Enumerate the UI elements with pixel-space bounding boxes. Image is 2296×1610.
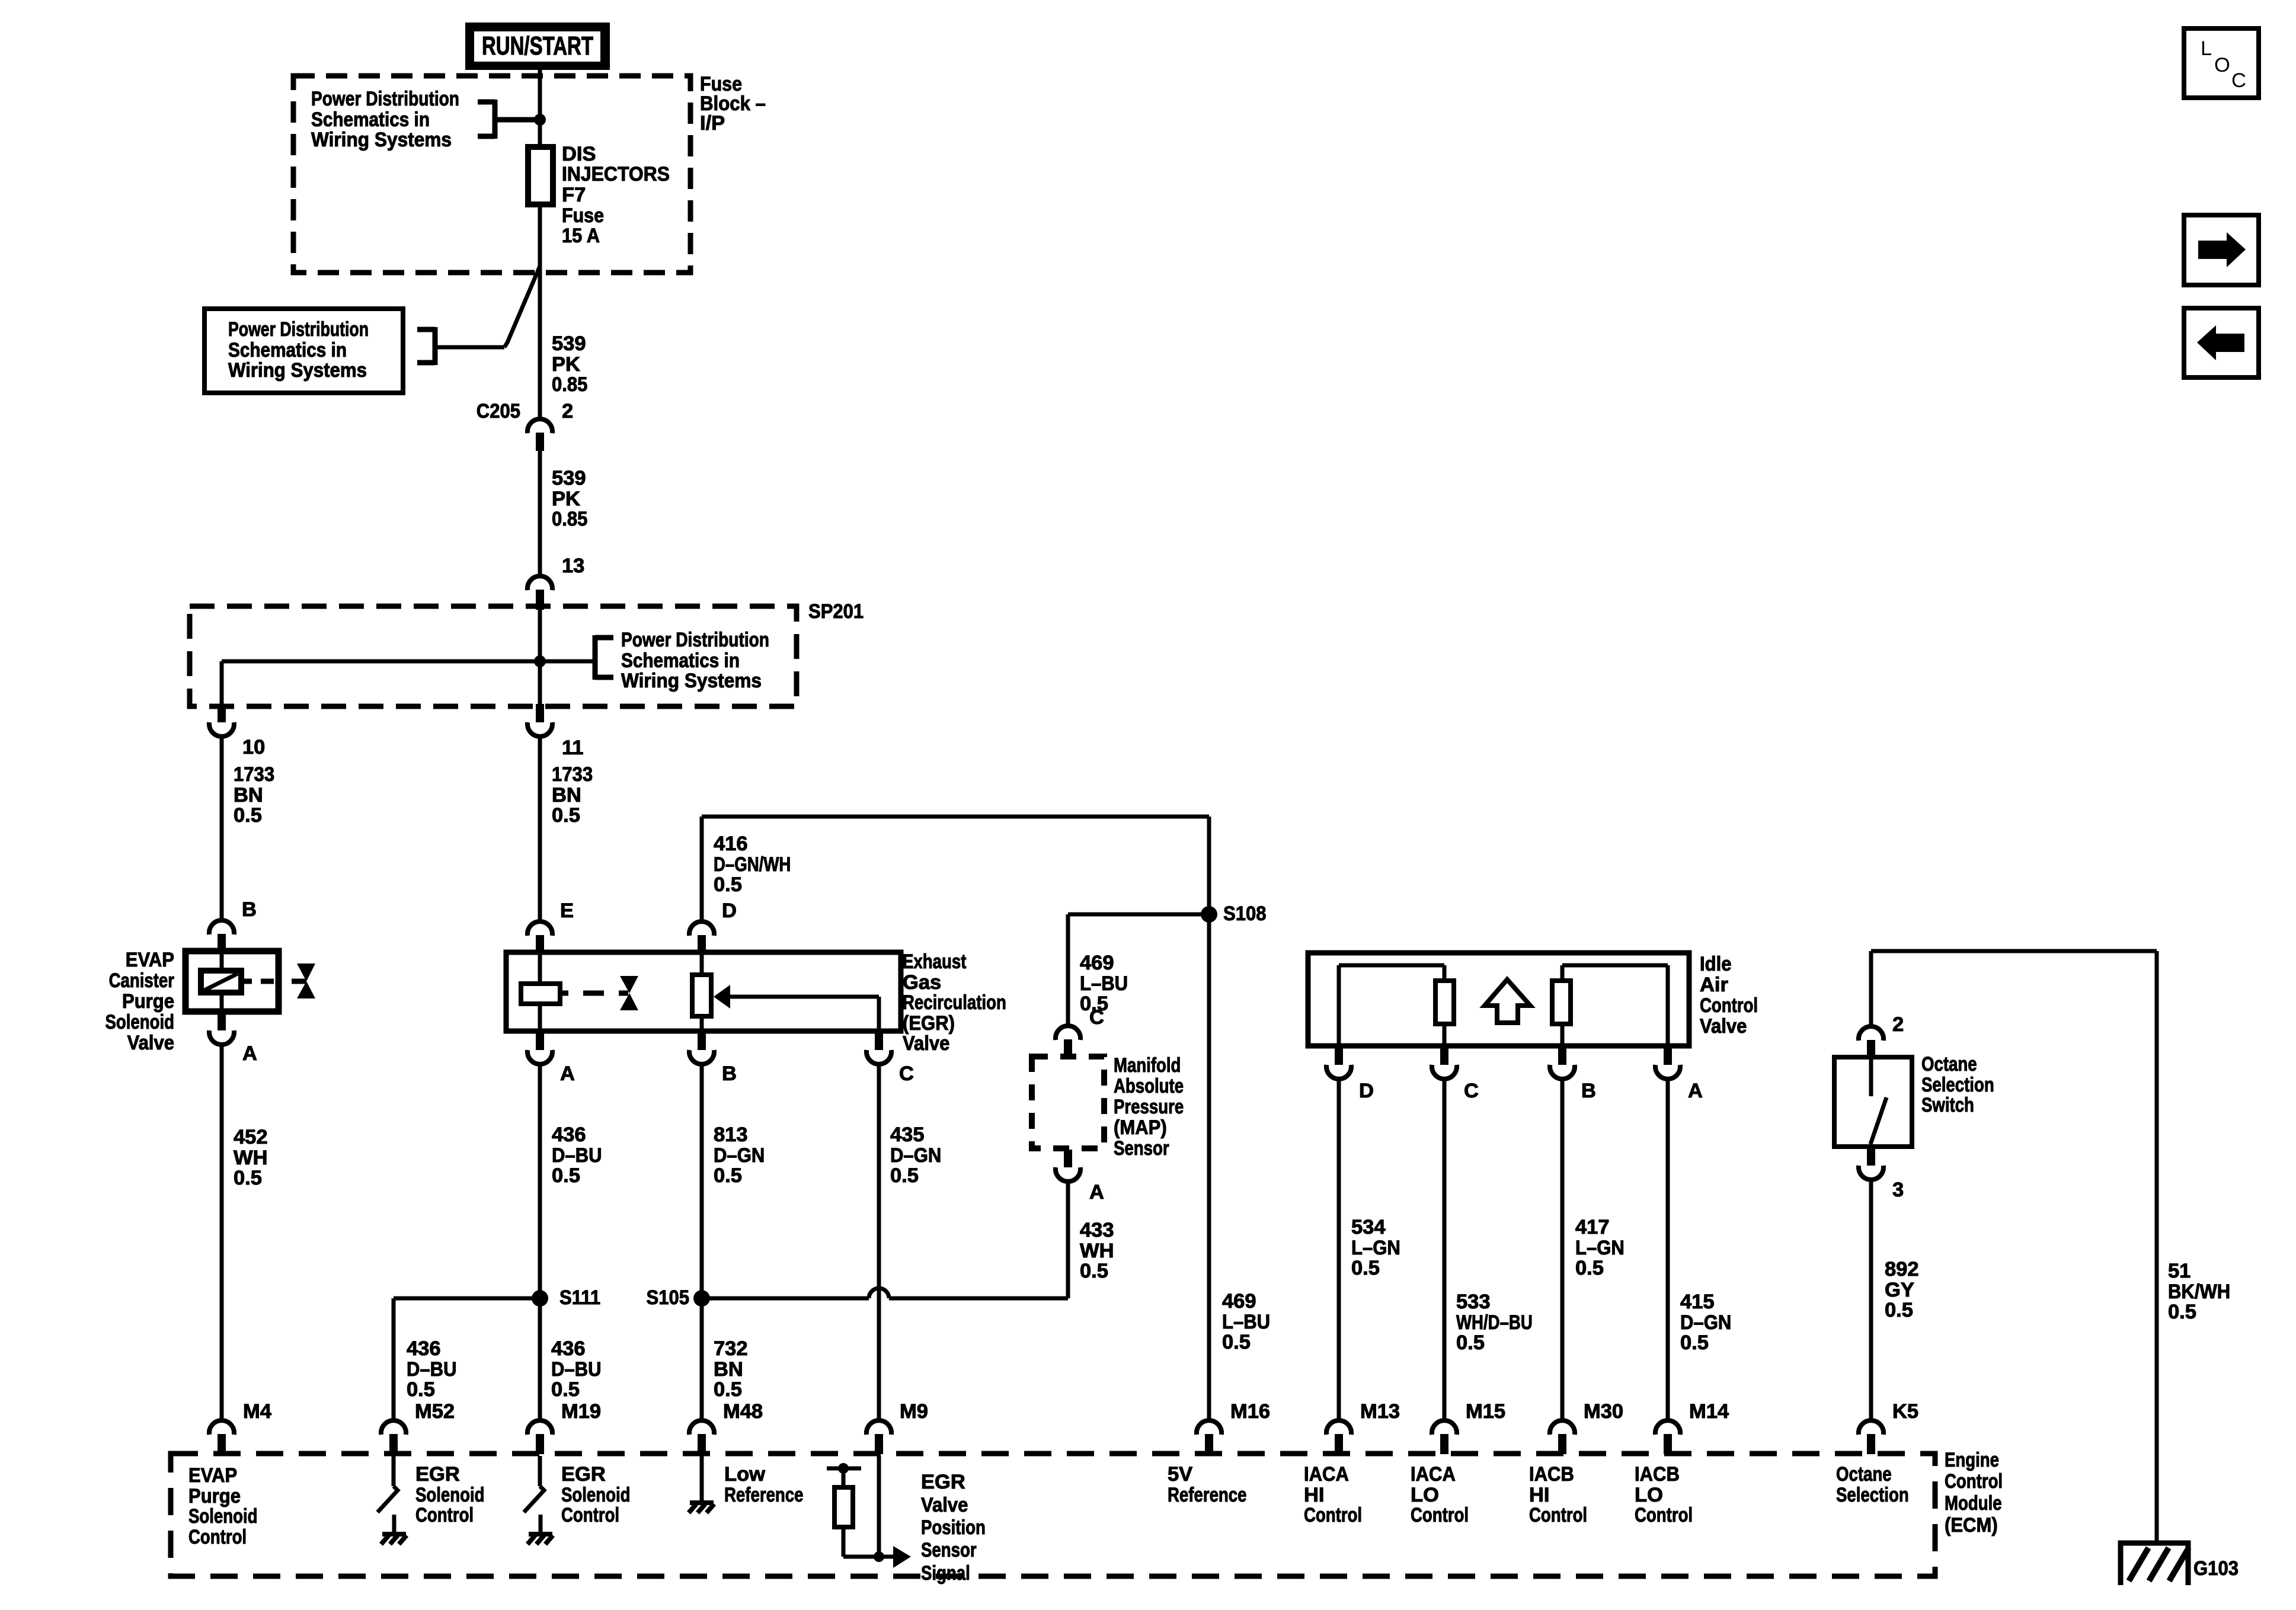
svg-text:EGR: EGR [415, 1463, 460, 1486]
svg-text:Position: Position [921, 1516, 986, 1539]
svg-text:(MAP): (MAP) [1114, 1116, 1167, 1139]
connector ECM terminal M4 [209, 1400, 271, 1454]
svg-text:WH/D–BU: WH/D–BU [1456, 1311, 1533, 1334]
svg-text:Wiring Systems: Wiring Systems [228, 359, 367, 382]
wire RUN/START to fuse [538, 69, 542, 276]
svg-text:Control: Control [1945, 1470, 2003, 1493]
svg-text:3: 3 [1892, 1179, 1904, 1201]
svg-text:0.5: 0.5 [552, 804, 580, 827]
svg-text:0.5: 0.5 [234, 804, 262, 827]
svg-text:O: O [2214, 54, 2230, 76]
connector pin 13 [527, 555, 584, 610]
label Low Reference [724, 1463, 804, 1506]
svg-text:SP201: SP201 [808, 600, 864, 623]
connector EGR pin D [689, 900, 737, 953]
connector ECM terminal M15 [1432, 1400, 1505, 1454]
svg-text:EVAP: EVAP [126, 949, 174, 971]
svg-text:M16: M16 [1230, 1400, 1270, 1423]
wire octane 3 to K5 [1869, 1181, 1873, 1419]
svg-text:WH: WH [234, 1147, 267, 1169]
svg-text:0.5: 0.5 [1575, 1257, 1604, 1279]
svg-text:Valve: Valve [1700, 1015, 1747, 1038]
wire octane top to right rail [1871, 951, 2157, 1543]
power source RUN/START box [465, 23, 610, 70]
svg-text:D–BU: D–BU [552, 1144, 602, 1167]
svg-text:L–GN: L–GN [1575, 1237, 1625, 1259]
svg-text:2: 2 [1892, 1013, 1904, 1036]
label Exhaust Gas Recirculation (EGR) Valve [903, 950, 1006, 1055]
label 51 BK/WH 0.5 [2168, 1260, 2230, 1323]
svg-text:415: 415 [1680, 1291, 1715, 1313]
svg-text:C: C [1089, 1006, 1104, 1029]
connector octane pin 2 [1859, 1013, 1904, 1058]
svg-text:0.5: 0.5 [714, 873, 742, 896]
svg-text:0.5: 0.5 [1222, 1331, 1251, 1353]
svg-text:Selection: Selection [1836, 1484, 1909, 1506]
svg-text:(ECM): (ECM) [1945, 1514, 1998, 1537]
svg-text:HI: HI [1304, 1484, 1325, 1506]
svg-text:433: 433 [1080, 1219, 1114, 1241]
connector IAC pin A [1655, 1047, 1703, 1102]
label 452 WH 0.5 [234, 1126, 268, 1189]
svg-text:0.5: 0.5 [407, 1378, 435, 1401]
svg-text:D–GN: D–GN [890, 1144, 941, 1167]
label 469 L-BU 0.5 (MAP) [1080, 952, 1128, 1015]
wire fuse to C205 [538, 265, 542, 418]
svg-text:Schematics in: Schematics in [311, 108, 430, 131]
svg-text:417: 417 [1575, 1216, 1610, 1238]
svg-text:1733: 1733 [552, 763, 593, 786]
connector IAC pin B [1550, 1047, 1596, 1102]
svg-text:0.5: 0.5 [1680, 1331, 1709, 1354]
svg-text:Solenoid: Solenoid [561, 1484, 631, 1506]
svg-text:M13: M13 [1360, 1400, 1400, 1423]
wire IAC D down [1337, 1080, 1341, 1419]
label Idle Air Control Valve [1700, 953, 1758, 1038]
wire EVAP A to M4 [220, 1046, 224, 1419]
label IACA LO Control [1411, 1463, 1469, 1526]
svg-text:M15: M15 [1466, 1400, 1505, 1423]
label 533 WH/D-BU 0.5 [1456, 1291, 1533, 1354]
svg-text:K5: K5 [1892, 1400, 1918, 1423]
svg-text:Manifold: Manifold [1114, 1054, 1181, 1077]
connector ECM terminal M48 [689, 1400, 763, 1454]
idle air control valve box [1308, 953, 1689, 1046]
svg-text:Valve: Valve [903, 1032, 949, 1055]
switch ECM driver for M19 [524, 1456, 553, 1544]
svg-text:D–GN: D–GN [714, 1144, 765, 1167]
label Manifold Absolute Pressure (MAP) Sensor [1114, 1054, 1184, 1160]
svg-text:Low: Low [724, 1463, 765, 1486]
wire IAC B down [1560, 1080, 1565, 1419]
label EGR Solenoid Control (M52) [415, 1463, 485, 1526]
svg-text:Control: Control [188, 1526, 247, 1548]
wire C205 to 13 [538, 450, 542, 575]
svg-text:534: 534 [1351, 1216, 1386, 1238]
label 539 PK 0.85 (lower) [552, 467, 587, 530]
svg-text:Control: Control [415, 1504, 474, 1526]
label 469 L-BU 0.5 (M16) [1222, 1290, 1270, 1353]
svg-text:0.5: 0.5 [714, 1164, 742, 1187]
svg-text:IACB: IACB [1529, 1463, 1574, 1486]
svg-text:435: 435 [890, 1124, 925, 1146]
svg-text:Signal: Signal [921, 1562, 970, 1585]
connector C205 pin 2 [477, 400, 573, 451]
connector MAP pin C [1056, 1006, 1104, 1058]
connector ECM terminal M30 [1550, 1400, 1623, 1454]
svg-text:Valve: Valve [921, 1494, 968, 1516]
svg-text:436: 436 [552, 1124, 586, 1146]
svg-text:IACA: IACA [1411, 1463, 1456, 1486]
svg-text:DIS: DIS [562, 143, 596, 165]
svg-text:Control: Control [1700, 994, 1758, 1017]
svg-text:Sensor: Sensor [1114, 1137, 1169, 1160]
svg-text:Control: Control [1304, 1504, 1362, 1526]
svg-text:452: 452 [234, 1126, 268, 1148]
wire EGR B to S105/M48 [700, 1065, 704, 1419]
label 435 D-GN 0.5 [890, 1124, 941, 1187]
svg-text:Idle: Idle [1700, 953, 1732, 975]
svg-text:PK: PK [552, 488, 580, 510]
svg-text:0.85: 0.85 [552, 508, 587, 530]
label 5V Reference [1168, 1463, 1247, 1506]
fuse F7 DIS INJECTORS [528, 143, 670, 247]
EVAP canister purge solenoid valve [186, 950, 315, 1012]
svg-text:0.5: 0.5 [234, 1167, 262, 1189]
svg-text:0.5: 0.5 [551, 1378, 580, 1401]
wire IAC A down [1666, 1080, 1670, 1419]
svg-text:Power Distribution: Power Distribution [621, 629, 769, 651]
fuse block I/P dashed box [293, 76, 690, 273]
svg-text:B: B [722, 1062, 737, 1085]
label 539 PK 0.85 (upper) [552, 332, 587, 396]
svg-text:M4: M4 [243, 1400, 271, 1423]
wire IAC C down [1443, 1080, 1447, 1419]
svg-text:Valve: Valve [127, 1032, 174, 1054]
svg-text:BN: BN [714, 1358, 743, 1381]
svg-text:Solenoid: Solenoid [105, 1011, 175, 1033]
svg-text:Schematics in: Schematics in [621, 649, 740, 672]
wire 11 to EGR E [538, 738, 542, 920]
svg-text:0.85: 0.85 [552, 373, 587, 396]
label Power Distribution Schematics in Wiring Systems (fuse block) [311, 88, 459, 151]
bracket to wire (fuse block) [478, 100, 546, 139]
svg-text:Power Distribution: Power Distribution [228, 318, 369, 341]
EGR valve box [506, 952, 901, 1031]
svg-text:Reference: Reference [724, 1484, 804, 1506]
wire 416/S108 to M16 [1207, 817, 1211, 1419]
svg-text:BN: BN [234, 784, 263, 806]
label EGR Solenoid Control (M19) [561, 1463, 631, 1526]
wire 10 to EVAP B [220, 738, 224, 919]
svg-text:Control: Control [1411, 1504, 1469, 1526]
svg-text:WH: WH [1080, 1240, 1114, 1262]
svg-text:B: B [1581, 1080, 1596, 1102]
engine control module dashed box [171, 1454, 1935, 1576]
svg-text:0.5: 0.5 [1885, 1299, 1913, 1321]
svg-text:M19: M19 [561, 1400, 601, 1423]
svg-text:S105: S105 [647, 1286, 690, 1309]
svg-text:B: B [242, 898, 257, 921]
svg-text:INJECTORS: INJECTORS [562, 163, 670, 185]
svg-text:5V: 5V [1168, 1463, 1192, 1486]
svg-text:469: 469 [1080, 952, 1114, 974]
svg-text:51: 51 [2168, 1260, 2191, 1282]
svg-text:EVAP: EVAP [188, 1464, 237, 1487]
MAP sensor dashed box [1032, 1057, 1104, 1148]
svg-text:0.5: 0.5 [2168, 1301, 2196, 1323]
splice S111 [394, 1286, 600, 1419]
svg-text:0.5: 0.5 [714, 1378, 742, 1401]
svg-text:0.5: 0.5 [890, 1164, 919, 1187]
connector ECM terminal M52 [381, 1400, 455, 1454]
connector EVAP pin A [209, 1013, 257, 1065]
switch ECM driver for M52 [378, 1456, 407, 1544]
svg-text:Pressure: Pressure [1114, 1096, 1184, 1118]
label IACB LO Control [1635, 1463, 1693, 1526]
svg-text:416: 416 [714, 833, 748, 855]
svg-text:D–BU: D–BU [551, 1358, 602, 1381]
legend arrow left box [2184, 308, 2259, 377]
label 534 L-GN 0.5 [1351, 1216, 1400, 1279]
svg-text:HI: HI [1529, 1484, 1550, 1506]
connector ECM terminal M14 [1655, 1400, 1729, 1454]
svg-text:10: 10 [242, 736, 265, 758]
connector pin 10 [209, 704, 265, 758]
svg-text:RUN/START: RUN/START [482, 31, 593, 60]
svg-text:Fuse: Fuse [562, 204, 604, 227]
svg-text:S108: S108 [1223, 902, 1267, 925]
svg-text:(EGR): (EGR) [903, 1012, 955, 1035]
svg-text:M30: M30 [1584, 1400, 1623, 1423]
label Octane Selection Switch [1921, 1053, 1994, 1116]
label IACB HI Control [1529, 1463, 1587, 1526]
connector EGR pin A [527, 1032, 575, 1085]
svg-text:LO: LO [1635, 1484, 1663, 1506]
svg-text:Reference: Reference [1168, 1484, 1247, 1506]
svg-text:Purge: Purge [188, 1485, 241, 1507]
svg-text:Wiring Systems: Wiring Systems [621, 670, 762, 692]
svg-text:IACA: IACA [1304, 1463, 1349, 1486]
connector ECM terminal M13 [1326, 1400, 1400, 1454]
connector IAC pin D [1326, 1047, 1374, 1102]
svg-text:Octane: Octane [1836, 1463, 1892, 1486]
connector EGR pin B [689, 1032, 737, 1085]
svg-text:M14: M14 [1689, 1400, 1729, 1423]
svg-text:15 A: 15 A [562, 225, 600, 247]
svg-text:BK/WH: BK/WH [2168, 1281, 2230, 1303]
LOC legend box [2184, 28, 2259, 98]
svg-text:1733: 1733 [234, 763, 274, 786]
svg-text:E: E [560, 900, 574, 922]
label 417 L-GN 0.5 [1575, 1216, 1625, 1279]
svg-text:Canister: Canister [109, 969, 174, 992]
connector MAP pin A [1056, 1150, 1104, 1204]
label 813 D-GN 0.5 [714, 1124, 765, 1187]
svg-text:Sensor: Sensor [921, 1539, 977, 1561]
svg-text:Wiring Systems: Wiring Systems [311, 129, 452, 151]
svg-text:732: 732 [714, 1337, 748, 1360]
svg-text:Engine: Engine [1945, 1449, 1999, 1471]
svg-text:Selection: Selection [1921, 1074, 1994, 1096]
connector ECM terminal M16 [1197, 1400, 1270, 1454]
svg-text:C: C [1464, 1080, 1479, 1102]
label 436 D-BU 0.5 (M52) [407, 1337, 457, 1401]
svg-text:C: C [2231, 69, 2246, 92]
svg-text:Gas: Gas [903, 971, 941, 994]
svg-text:0.5: 0.5 [1351, 1257, 1380, 1279]
svg-text:D–BU: D–BU [407, 1358, 457, 1381]
ECM low reference ground [689, 1456, 714, 1513]
svg-text:469: 469 [1222, 1290, 1256, 1313]
svg-text:D–GN: D–GN [1680, 1311, 1731, 1334]
svg-text:L–BU: L–BU [1222, 1311, 1270, 1333]
connector octane pin 3 [1859, 1148, 1904, 1201]
ECM EGR position sense network [827, 1456, 911, 1568]
bracket Power Distribution (SP201) [540, 635, 613, 680]
svg-text:11: 11 [562, 737, 583, 759]
svg-text:I/P: I/P [700, 112, 725, 135]
label Octane Selection (ECM) [1836, 1463, 1909, 1506]
svg-text:L–BU: L–BU [1080, 972, 1128, 995]
label Fuse Block I/P [700, 73, 766, 135]
svg-text:L–GN: L–GN [1351, 1237, 1400, 1259]
ground G103 [2121, 1543, 2189, 1585]
svg-text:Absolute: Absolute [1114, 1075, 1184, 1097]
svg-text:539: 539 [552, 467, 586, 489]
svg-text:A: A [242, 1042, 257, 1065]
svg-text:892: 892 [1885, 1258, 1919, 1281]
svg-text:GY: GY [1885, 1279, 1914, 1301]
svg-text:A: A [1688, 1080, 1703, 1102]
svg-text:13: 13 [562, 555, 584, 577]
connector EGR pin E [527, 900, 574, 953]
svg-text:436: 436 [551, 1337, 586, 1360]
svg-text:A: A [1089, 1181, 1104, 1204]
svg-text:EGR: EGR [561, 1463, 606, 1486]
label EVAP Canister Purge Solenoid Valve [105, 949, 175, 1054]
svg-text:Octane: Octane [1921, 1053, 1977, 1076]
label 415 D-GN 0.5 [1680, 1291, 1731, 1354]
connector EGR pin C [866, 1032, 914, 1085]
bracket and takeoff wire (to power distribution) [417, 266, 540, 365]
splice S108 [1201, 902, 1267, 925]
wire 416 corner to EGR D [702, 817, 1209, 920]
splice pack SP201 dashed box [190, 606, 797, 706]
svg-text:IACB: IACB [1635, 1463, 1680, 1486]
svg-text:Solenoid: Solenoid [415, 1484, 485, 1506]
svg-text:M48: M48 [723, 1400, 763, 1423]
svg-text:436: 436 [407, 1337, 441, 1360]
svg-text:Control: Control [1529, 1504, 1587, 1526]
connector ECM terminal M9 [866, 1400, 928, 1454]
svg-text:F7: F7 [562, 184, 586, 206]
svg-text:A: A [560, 1062, 575, 1085]
splice S105 [647, 1182, 1069, 1309]
svg-text:D: D [1359, 1080, 1374, 1102]
svg-text:C: C [899, 1062, 914, 1085]
svg-text:D: D [722, 900, 737, 922]
label 416 D-GN/WH 0.5 [714, 833, 791, 896]
svg-text:G103: G103 [2193, 1557, 2239, 1580]
svg-text:Air: Air [1700, 974, 1728, 996]
label EVAP Purge Solenoid Control [188, 1464, 258, 1548]
solid box Power Distribution Schematics in Wiring Systems [204, 309, 403, 393]
label 892 GY 0.5 [1885, 1258, 1919, 1321]
svg-text:EGR: EGR [921, 1471, 965, 1493]
label 436 D-BU 0.5 (A) [552, 1124, 602, 1187]
svg-text:Solenoid: Solenoid [188, 1505, 258, 1528]
svg-text:2: 2 [562, 400, 573, 422]
legend arrow right box [2184, 215, 2259, 285]
svg-text:BN: BN [552, 784, 581, 806]
svg-text:0.5: 0.5 [1080, 1260, 1108, 1282]
svg-text:S111: S111 [559, 1286, 600, 1309]
svg-text:Module: Module [1945, 1492, 2002, 1515]
connector ECM terminal M19 [527, 1400, 601, 1454]
svg-text:539: 539 [552, 332, 586, 355]
connector pin 11 [527, 704, 583, 759]
label 433 WH 0.5 [1080, 1219, 1114, 1282]
wire inside SP201 [222, 610, 546, 704]
svg-text:D–GN/WH: D–GN/WH [714, 853, 791, 876]
svg-text:Purge: Purge [122, 990, 174, 1013]
svg-text:M9: M9 [900, 1400, 928, 1423]
svg-text:Control: Control [561, 1504, 619, 1526]
label EGR Valve Position Sensor Signal [921, 1471, 986, 1585]
svg-text:Switch: Switch [1921, 1094, 1974, 1116]
octane selection switch box [1834, 1057, 1912, 1147]
label 436 D-BU 0.5 (M19) [551, 1337, 602, 1401]
svg-text:0.5: 0.5 [1456, 1331, 1485, 1354]
wire EGR C to M9 [877, 1065, 881, 1419]
label Engine Control Module (ECM) [1945, 1449, 2003, 1537]
label IACA HI Control [1304, 1463, 1362, 1526]
label 732 BN 0.5 [714, 1337, 748, 1401]
svg-text:M52: M52 [415, 1400, 455, 1423]
svg-text:813: 813 [714, 1124, 748, 1146]
svg-text:533: 533 [1456, 1291, 1491, 1313]
label Power Distribution Schematics in Wiring Systems (SP201) [621, 629, 769, 692]
svg-text:Control: Control [1635, 1504, 1693, 1526]
svg-text:Power Distribution: Power Distribution [311, 88, 459, 110]
svg-text:Exhaust: Exhaust [903, 950, 967, 973]
connector EVAP pin B [209, 898, 257, 952]
svg-text:PK: PK [552, 353, 580, 376]
svg-text:L: L [2201, 37, 2212, 60]
wire S108 to MAP C [1068, 914, 1209, 1025]
label 1733 BN 0.5 (main) [552, 763, 593, 827]
svg-text:C205: C205 [477, 400, 520, 422]
label 1733 BN 0.5 (left) [234, 763, 274, 827]
connector ECM terminal K5 [1859, 1400, 1918, 1454]
wire EGR A to S111/M19 [538, 1065, 542, 1419]
svg-text:Schematics in: Schematics in [228, 339, 347, 361]
connector IAC pin C [1432, 1047, 1479, 1102]
svg-text:Recirculation: Recirculation [903, 991, 1006, 1014]
svg-text:LO: LO [1411, 1484, 1439, 1506]
svg-text:0.5: 0.5 [552, 1164, 580, 1187]
